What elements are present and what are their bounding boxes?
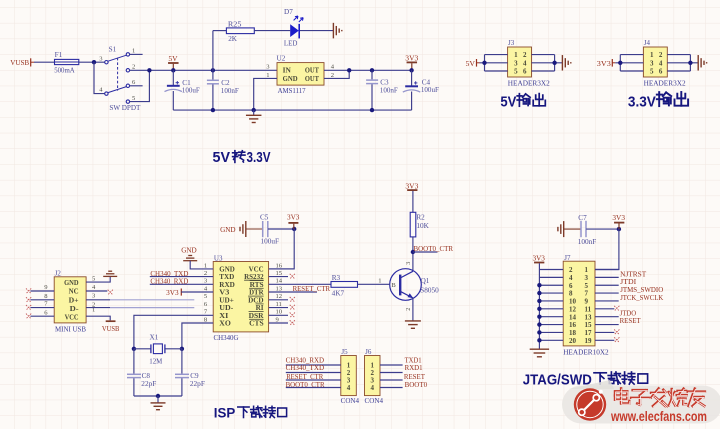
wire J7 left bus — [538, 263, 540, 349]
svg-text:1: 1 — [585, 266, 589, 274]
node XO crystal — [180, 347, 184, 351]
svg-text:1: 1 — [514, 51, 518, 59]
svg-text:4: 4 — [523, 59, 527, 67]
svg-text:U3: U3 — [214, 254, 223, 262]
node 5V rail at C1 — [171, 68, 175, 72]
svg-text:1: 1 — [204, 262, 207, 269]
node rail C2 — [211, 108, 215, 112]
svg-text:5V: 5V — [500, 94, 516, 110]
svg-text:C8: C8 — [142, 372, 151, 380]
capacitor C2 — [207, 31, 239, 111]
svg-text:BOOT0: BOOT0 — [405, 380, 428, 389]
svg-text:B: B — [392, 282, 396, 289]
svg-text:18: 18 — [569, 329, 577, 337]
regulator U2 — [277, 55, 325, 96]
svg-text:22pF: 22pF — [141, 380, 156, 388]
node J7 left row 5 — [537, 299, 541, 303]
wire U2 pin4 3V3 rail — [324, 69, 412, 71]
capacitor C4 — [403, 70, 439, 110]
wire J5 pin3 — [286, 379, 341, 381]
ground Q1 — [405, 321, 421, 328]
svg-text:JTCK_SWCLK: JTCK_SWCLK — [620, 293, 664, 302]
wire J4 left pins — [615, 62, 643, 64]
node J7 left row 6 — [537, 307, 541, 311]
LED D7 — [284, 8, 303, 48]
wire to S1 pin4 — [94, 62, 105, 93]
power 3V3 at J7 — [532, 253, 545, 262]
wire R2 to Q1 collector — [412, 237, 414, 271]
node C5 3V3 — [292, 227, 296, 231]
fuse F1 — [54, 51, 79, 74]
svg-text:4: 4 — [569, 274, 573, 282]
wire U3 pin13 stub — [269, 291, 317, 293]
svg-text:16: 16 — [569, 321, 577, 329]
svg-text:5V: 5V — [213, 149, 231, 166]
ground LED — [333, 23, 341, 38]
wire J2 VCC pin — [86, 316, 110, 320]
svg-text:GND: GND — [220, 225, 236, 234]
wire C7 to 3V3 — [586, 228, 619, 230]
svg-text:R2: R2 — [416, 214, 425, 222]
wire crystal ground rail — [134, 395, 182, 397]
svg-text:13: 13 — [276, 285, 283, 292]
svg-text:2: 2 — [523, 51, 527, 59]
svg-text:LED: LED — [284, 40, 298, 48]
switch pin 3 contact — [105, 61, 108, 64]
ground crystal — [157, 396, 159, 403]
no connect U3 pin15 — [290, 274, 295, 279]
svg-text:9: 9 — [585, 298, 589, 306]
node C3 top — [370, 68, 374, 72]
svg-text:F1: F1 — [55, 51, 63, 59]
wire D- to U3 — [110, 307, 194, 309]
wire S1 pin5 to junction — [130, 70, 150, 101]
wire D7 to ground — [300, 30, 333, 32]
svg-text:6: 6 — [659, 68, 663, 76]
net NJTRST — [620, 269, 647, 278]
no connect pin6 — [26, 314, 31, 319]
header J5 — [341, 348, 360, 405]
J2 shield pins 9 8 7 6 — [44, 284, 48, 316]
port 5V for J3 — [466, 59, 480, 68]
net CH340_TXD — [150, 269, 188, 278]
svg-text:100uF: 100uF — [261, 238, 280, 246]
power 3V3 top rail — [405, 53, 418, 70]
wire S1 pin6 stub — [130, 85, 143, 87]
node J7 left row 4 — [537, 291, 541, 295]
svg-text:CON4: CON4 — [341, 396, 360, 405]
no connect J7 pin17 — [614, 329, 619, 334]
svg-text:S8050: S8050 — [420, 286, 439, 294]
no connect J7 pin11 — [614, 306, 619, 311]
crystal X1 — [149, 334, 165, 366]
svg-text:100nF: 100nF — [221, 87, 239, 95]
svg-text:7: 7 — [585, 290, 589, 298]
net JTDO — [620, 308, 637, 317]
ground J2 — [103, 271, 117, 276]
svg-text:10: 10 — [276, 309, 283, 316]
svg-text:BOOT0_CTR: BOOT0_CTR — [414, 244, 454, 253]
net JTDI — [620, 277, 637, 286]
svg-text:14: 14 — [569, 313, 577, 321]
svg-text:ISP: ISP — [214, 405, 236, 421]
header J6 — [365, 348, 384, 405]
U3 right pin numbers — [276, 262, 283, 323]
svg-text:8: 8 — [569, 290, 573, 298]
node J4 right — [688, 61, 692, 65]
no connect pin8 — [26, 297, 31, 302]
no connect J2 pin4 — [108, 290, 113, 295]
svg-text:C5: C5 — [260, 214, 269, 222]
svg-text:3V3: 3V3 — [597, 59, 611, 68]
svg-text:4: 4 — [370, 384, 374, 392]
capacitor C7 — [578, 214, 597, 246]
svg-text:4: 4 — [659, 59, 663, 67]
net BOOT0_CTR at J5 — [286, 380, 325, 389]
U3 left pin numbers — [204, 262, 208, 323]
svg-text:J3: J3 — [508, 39, 515, 47]
svg-text:19: 19 — [585, 337, 593, 345]
svg-text:MINI USB: MINI USB — [55, 324, 86, 333]
port VUSB — [10, 58, 34, 67]
svg-text:OUT: OUT — [305, 65, 319, 74]
wire C2 top to R25 — [213, 30, 227, 32]
svg-text:S1: S1 — [109, 45, 117, 53]
svg-text:CH340G: CH340G — [214, 333, 240, 342]
svg-text:3: 3 — [405, 262, 412, 265]
svg-text:R25: R25 — [228, 21, 242, 29]
wire J6 pin1 — [380, 364, 403, 366]
svg-text:2: 2 — [569, 266, 573, 274]
svg-text:10: 10 — [569, 298, 577, 306]
svg-text:1: 1 — [378, 278, 381, 285]
svg-text:U2: U2 — [277, 55, 286, 63]
svg-text:1: 1 — [132, 48, 135, 55]
port GND at C5 — [220, 225, 236, 234]
wire J2 pin7 — [30, 307, 54, 309]
header J7 — [563, 254, 609, 357]
wire J2 D+ stub — [86, 299, 110, 301]
node J7 left row 3 — [537, 283, 541, 287]
wire J2 gnd pin — [86, 276, 110, 282]
capacitor C1 — [165, 70, 200, 110]
wire C5 to 3V3 — [268, 228, 294, 230]
wire crystal right — [165, 348, 182, 350]
svg-text:VUSB: VUSB — [10, 58, 29, 67]
svg-text:5: 5 — [650, 68, 654, 76]
watermark logo — [574, 388, 606, 420]
label SW DPDT — [109, 103, 140, 112]
svg-text:J5: J5 — [341, 348, 348, 356]
wire U2 pin2 — [324, 70, 349, 78]
svg-text:5: 5 — [514, 68, 518, 76]
svg-text:www.elecfans.com: www.elecfans.com — [610, 409, 707, 424]
wire U3 pin4 — [181, 291, 213, 293]
U2 pin 2 number — [331, 72, 334, 79]
wire J2 pin6 — [30, 315, 54, 317]
port 3V3 at U3 pin4 — [166, 288, 181, 297]
power 3V3 at C7 — [612, 213, 625, 229]
node J7 left row 7 — [537, 315, 541, 319]
capacitor C5 — [260, 214, 279, 246]
wire U3 pin10 stub — [269, 314, 288, 316]
svg-text:100nF: 100nF — [380, 86, 398, 94]
wire Q1 emitter to ground — [412, 298, 414, 320]
power 3V3 at R2 — [405, 181, 418, 212]
svg-text:12M: 12M — [149, 357, 163, 365]
node J4 left — [618, 61, 622, 65]
wire U3 pin14 to R3 — [269, 283, 331, 285]
wire XI down to C8 — [133, 349, 135, 374]
switch pin 6 contact — [126, 84, 129, 87]
svg-text:CTS: CTS — [249, 319, 264, 328]
svg-text:15: 15 — [585, 321, 593, 329]
wire D+ to U3 — [110, 299, 194, 301]
no connect U3 pin9 — [290, 320, 295, 325]
svg-text:500mA: 500mA — [54, 67, 75, 75]
node BOOT0 — [411, 250, 415, 254]
node J7 left row 9 — [537, 330, 541, 334]
wire gnd to C5 — [246, 228, 263, 230]
svg-text:3.3V: 3.3V — [628, 94, 656, 110]
ground U3 pin1 — [183, 256, 197, 261]
net JTMS_SWDIO — [620, 285, 663, 294]
svg-text:3.3V: 3.3V — [247, 149, 272, 166]
wire U3 pin12 stub — [269, 299, 288, 301]
svg-text:D7: D7 — [284, 8, 293, 16]
wire F1 to S1 — [79, 61, 105, 63]
wire VUSB to F1 — [34, 61, 55, 63]
svg-text:C9: C9 — [190, 372, 199, 380]
svg-text:OUT: OUT — [305, 74, 319, 83]
svg-text:R3: R3 — [332, 274, 341, 282]
power 5V — [168, 54, 179, 70]
wire crystal left — [134, 348, 151, 350]
capacitor C8 — [127, 372, 156, 396]
wire J6 pin4 — [380, 387, 403, 389]
wires J7 right pins — [595, 270, 619, 341]
wire U3 pin15 stub — [269, 276, 288, 278]
node J7 left row 8 — [537, 322, 541, 326]
wires J7 left pins — [539, 270, 563, 341]
svg-text:IN: IN — [283, 65, 292, 74]
wire ground rail — [173, 109, 411, 111]
resistor R2 — [410, 212, 430, 237]
node J3 left — [482, 61, 486, 65]
svg-text:100uF: 100uF — [421, 86, 439, 94]
node rail C3 — [370, 108, 374, 112]
svg-text:11: 11 — [585, 305, 592, 313]
label output J3 — [500, 94, 545, 111]
svg-text:2: 2 — [132, 64, 135, 71]
ground main rail — [253, 110, 255, 115]
wire U3 pin16 VCC stub — [269, 268, 295, 270]
svg-text:5: 5 — [585, 282, 589, 290]
svg-text:14: 14 — [276, 278, 283, 285]
wire J6 pin3 — [380, 379, 403, 381]
svg-text:3V3: 3V3 — [405, 181, 418, 190]
svg-text:100uF: 100uF — [182, 87, 200, 95]
port 3V3 for J4 — [597, 59, 616, 68]
net JTCK_SWCLK — [620, 293, 664, 302]
wire U3 pin2 TXD — [150, 276, 213, 278]
svg-text:CON4: CON4 — [365, 396, 384, 405]
wire J3 right pins — [532, 62, 563, 64]
wire J5 pin4 — [286, 387, 341, 389]
label output J4 — [628, 92, 688, 110]
svg-text:5V: 5V — [466, 59, 476, 68]
svg-text:3V3: 3V3 — [532, 253, 545, 262]
wire U3 pin1 — [190, 261, 213, 269]
node 3V3 at C4 — [409, 68, 413, 72]
watermark capsule — [562, 380, 720, 424]
node J7 left row 10 — [537, 338, 541, 342]
no connect U3 pin10 — [290, 313, 295, 318]
svg-text:13: 13 — [585, 313, 593, 321]
U2 pin 4 number — [331, 64, 335, 71]
node crystal gnd — [156, 394, 160, 398]
svg-text:XO: XO — [219, 319, 231, 328]
net RESET at J7 — [620, 316, 642, 325]
wire R25 to D7 — [254, 30, 290, 32]
power GND at U3 pin1 — [181, 245, 197, 254]
svg-text:12: 12 — [569, 305, 577, 313]
wire gnd to C7 — [564, 228, 581, 230]
svg-text:100nF: 100nF — [578, 238, 597, 246]
svg-text:J6: J6 — [365, 348, 372, 356]
wire 3V3 down to J7 pin1 — [595, 229, 619, 269]
node J3 right — [552, 61, 556, 65]
svg-text:17: 17 — [585, 329, 593, 337]
svg-text:3V3: 3V3 — [405, 53, 418, 62]
ground lead C5 — [240, 221, 246, 237]
no connect pin7 — [26, 305, 31, 310]
wire J5 pin2 — [286, 372, 341, 374]
node C2 top — [211, 68, 215, 72]
svg-text:2: 2 — [405, 308, 412, 311]
node rail gnd — [252, 108, 256, 112]
wire XO down to C9 — [181, 349, 183, 374]
svg-text:16: 16 — [276, 262, 283, 269]
IC U3 CH340G — [213, 254, 268, 342]
svg-text:2K: 2K — [228, 35, 238, 43]
no connect U3 pin11 — [290, 305, 295, 310]
wire J2 D- stub — [86, 307, 110, 309]
watermark text — [610, 388, 707, 423]
svg-text:RESET: RESET — [620, 316, 642, 325]
svg-text:SW DPDT: SW DPDT — [109, 103, 140, 112]
svg-text:3V3: 3V3 — [612, 213, 625, 222]
svg-text:4: 4 — [347, 384, 351, 392]
ground J4 — [698, 55, 706, 71]
node switch output — [147, 68, 151, 72]
resistor R3 — [331, 274, 358, 298]
U2 pin 1 number — [266, 72, 269, 79]
switch blade 3-1 — [108, 55, 126, 61]
svg-text:RESET_CTR: RESET_CTR — [293, 284, 331, 293]
svg-text:3V3: 3V3 — [287, 213, 300, 222]
wire U3 pin11 stub — [269, 307, 288, 309]
svg-text:CH340_TXD: CH340_TXD — [286, 363, 325, 372]
net RESET_CTR at J5 — [286, 372, 323, 381]
no connect pin9 — [26, 288, 31, 293]
svg-text:10K: 10K — [416, 222, 429, 230]
svg-text:NC: NC — [69, 287, 79, 296]
title 5V to 3.3V — [213, 149, 272, 166]
wire J6 pin2 — [380, 372, 403, 374]
wire U3 pin8 XO — [182, 323, 213, 349]
resistor R25 — [226, 21, 254, 44]
net BOOT0_CTR — [413, 244, 453, 253]
svg-text:J2: J2 — [55, 269, 62, 277]
net CH340_RXD — [150, 277, 188, 286]
node U2 outputs join — [347, 68, 351, 72]
switch pin 5 contact — [126, 100, 129, 103]
ground J3 — [562, 55, 570, 71]
svg-text:2: 2 — [331, 72, 334, 79]
svg-text:3: 3 — [514, 59, 518, 67]
net TXD1 — [405, 355, 422, 364]
switch pin 4 contact — [105, 92, 108, 95]
svg-text:11: 11 — [276, 301, 282, 308]
net RESET_CTR at U3 — [293, 284, 331, 293]
svg-text:15: 15 — [276, 270, 283, 277]
wire J5 pin1 — [286, 364, 341, 366]
svg-text:C7: C7 — [578, 214, 587, 222]
svg-text:2: 2 — [204, 270, 207, 277]
switch blade 4-6 — [108, 87, 126, 93]
wire J2 NC pin — [86, 290, 107, 292]
ground lead C7 — [558, 221, 564, 237]
U2 pin 3 number — [266, 64, 270, 71]
svg-text:2: 2 — [659, 51, 663, 59]
switch pin 1 contact — [126, 53, 129, 56]
wire U2 pin1 to ground rail — [254, 78, 277, 110]
node fuse-switch — [92, 60, 96, 64]
svg-text:RXD1: RXD1 — [405, 363, 423, 372]
switch S1 — [99, 45, 136, 102]
svg-text:6: 6 — [523, 68, 527, 76]
svg-text:VCC: VCC — [65, 312, 79, 321]
svg-text:22pF: 22pF — [190, 380, 205, 388]
switch pin 2 contact — [126, 69, 129, 72]
svg-text:Q1: Q1 — [421, 277, 430, 285]
svg-text:GND: GND — [181, 245, 197, 254]
svg-text:3: 3 — [650, 59, 654, 67]
svg-text:4K7: 4K7 — [332, 290, 345, 298]
svg-text:GND: GND — [283, 74, 298, 83]
svg-text:X1: X1 — [150, 334, 159, 342]
capacitor C9 — [175, 372, 205, 396]
header J4 — [643, 39, 686, 88]
svg-text:AMS1117: AMS1117 — [278, 86, 306, 95]
wire S1 pin1 stub — [130, 53, 143, 55]
svg-text:HEADER3X2: HEADER3X2 — [644, 79, 686, 88]
power VUSB at J2 — [102, 321, 120, 333]
Q1 base pin number — [378, 278, 381, 285]
svg-text:6: 6 — [569, 282, 573, 290]
svg-text:3V3: 3V3 — [166, 288, 179, 297]
wire J3 left pins — [480, 62, 508, 64]
svg-text:HEADER3X2: HEADER3X2 — [508, 79, 550, 88]
capacitor C3 — [366, 70, 398, 110]
wire J2 pin8 — [30, 299, 54, 301]
wire 3V3 down to U3 VCC — [269, 229, 295, 269]
net CH340_TXD at J5 — [286, 363, 325, 372]
connector J2 MINI USB — [54, 269, 86, 333]
svg-text:12: 12 — [276, 293, 283, 300]
svg-text:VUSB: VUSB — [102, 324, 120, 333]
